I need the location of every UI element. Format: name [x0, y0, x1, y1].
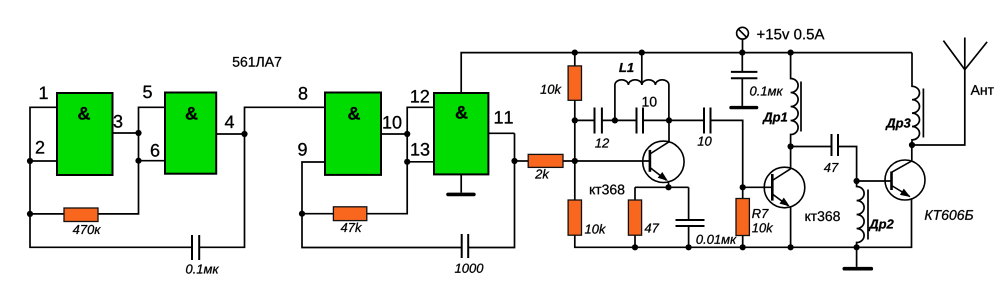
resistor 10k bottom	[568, 200, 581, 235]
wire pin2	[30, 160, 57, 162]
label 10k bottom	[585, 224, 606, 234]
wire 470k right lead and feedback column	[98, 107, 165, 214]
resistor 10k top	[568, 66, 581, 100]
wire pin13	[407, 161, 434, 163]
node Dr3 bottom	[909, 142, 915, 148]
pin 9	[298, 143, 306, 156]
power symbol +15v	[737, 27, 749, 39]
label 10a	[643, 97, 657, 107]
wire antenna feed	[912, 70, 965, 145]
inductor L1	[615, 80, 669, 121]
pin 13	[411, 143, 429, 156]
wire ground stub	[856, 247, 858, 267]
label Dr2	[868, 219, 893, 231]
resistor R7	[736, 199, 749, 236]
wire gate4 ground stub	[460, 175, 462, 193]
wire pin3	[113, 132, 139, 134]
wire cap12 left lead	[575, 119, 595, 121]
wire Q3 collector vertical	[911, 145, 913, 161]
core Dr1	[800, 82, 802, 132]
core Dr2	[867, 190, 869, 240]
gate U1.4	[434, 93, 488, 174]
gate U1.2 amp symbol	[186, 107, 198, 120]
capacitor 0.1mk right	[731, 72, 758, 78]
node 2k right	[572, 158, 578, 164]
pin 2	[36, 141, 44, 154]
label 0.1mk left	[186, 264, 219, 273]
wire collector node to cap10b	[669, 119, 704, 121]
node pin2	[27, 158, 33, 164]
label R7	[752, 209, 769, 218]
node pin10	[404, 131, 410, 137]
wire cap47 right to Q3 base node	[838, 147, 857, 182]
label 47	[644, 224, 659, 233]
label 12	[595, 138, 609, 147]
wire Q2 emitter vertical	[790, 207, 792, 247]
node caprow L1 left	[612, 117, 618, 123]
label +15v 0.5A	[757, 29, 824, 40]
wire cap 0.1mk right top stub	[741, 53, 743, 72]
wire cap47 left lead	[791, 146, 832, 148]
pin 8	[299, 87, 307, 100]
capacitor 12	[595, 108, 602, 134]
gate U1.1 amp symbol	[78, 107, 90, 120]
pin 6	[151, 144, 159, 157]
wire Q1 emitter node row	[635, 186, 689, 188]
capacitor 47	[832, 134, 839, 156]
node Dr2 top	[854, 178, 860, 184]
pin 4	[225, 116, 234, 128]
label Q2 kt368	[805, 211, 839, 221]
gate U1.3 amp symbol	[348, 107, 360, 120]
antenna prong center	[964, 38, 966, 70]
label cap 47	[824, 163, 839, 172]
node R7 top	[740, 184, 746, 190]
label IC 561LA7	[233, 57, 281, 67]
resistor 2k	[528, 154, 563, 167]
pin 12	[411, 90, 429, 103]
node rail power	[739, 50, 745, 56]
node rail Dr1	[788, 50, 794, 56]
wire pin8 from node A	[245, 107, 326, 134]
label KT606B	[925, 210, 973, 220]
wire 10k column middle	[574, 120, 576, 200]
label 0.1mk right	[750, 86, 783, 95]
wire cap 0.01 top stub	[688, 187, 690, 220]
wire cap12 to cap10a	[602, 119, 637, 121]
label Q1 kt368	[590, 185, 624, 195]
wire 2k right lead and Q1 base lead	[563, 160, 650, 162]
pin 5	[143, 86, 152, 99]
label antenna Ant	[971, 85, 994, 95]
node caprow L1 right	[666, 117, 672, 123]
label R7 value 10k	[752, 223, 773, 233]
wire node A down to cap rail	[199, 134, 244, 247]
node pin13	[404, 159, 410, 165]
transistor Q3 KT606B	[885, 160, 925, 200]
node Q1 emitter	[665, 184, 671, 190]
node rail L1 tap	[639, 50, 645, 56]
pin 11	[495, 111, 513, 123]
wire pin10	[381, 133, 407, 135]
node rail Q2 emitter	[788, 244, 794, 250]
capacitor C2 1000	[462, 234, 469, 258]
resistor 47k	[333, 207, 366, 221]
wire pin6	[139, 160, 166, 162]
wire 470k left lead	[30, 213, 64, 215]
label 1000	[455, 264, 483, 273]
inductor Dr1	[791, 53, 799, 147]
wire Q2 collector vertical	[790, 147, 792, 169]
node rail R7	[740, 244, 746, 250]
wire pin4	[216, 133, 244, 135]
wire R7 top stub	[742, 187, 744, 198]
wire cap10a to collector node	[643, 119, 669, 121]
node rail 0.01	[686, 244, 692, 250]
node pin3	[135, 130, 141, 136]
wire cap1000 right and column pin11	[468, 133, 514, 247]
node 470k left	[27, 211, 33, 217]
capacitor 10a	[637, 108, 644, 134]
wire 47res bottom stub	[634, 235, 636, 247]
gate U1.3	[325, 93, 381, 175]
capacitor 10b	[704, 108, 711, 134]
label Dr1	[762, 113, 787, 125]
label L1	[619, 63, 633, 72]
pin 1	[40, 87, 48, 99]
gate U1.2	[165, 93, 216, 174]
wire Q3 base lead	[857, 180, 892, 182]
node pin4	[241, 131, 247, 137]
label 10k top	[540, 84, 561, 94]
wire R7 bottom stub	[742, 236, 744, 248]
wire 10k bottom to cap row	[574, 100, 576, 120]
wire Q1 collector vertical	[668, 120, 670, 141]
capacitor C1 0.1mk	[192, 235, 199, 260]
antenna prong right	[965, 42, 987, 70]
gate U1.1	[57, 93, 113, 175]
wire pin1 and left rail	[30, 107, 192, 247]
label 10b	[698, 137, 712, 146]
node rail ground	[854, 244, 860, 250]
wire cap 0.01 bottom stub	[688, 226, 690, 247]
inductor Dr2	[857, 181, 865, 247]
pin 10	[383, 116, 401, 129]
label 0.01mk	[696, 235, 736, 244]
resistor 47	[628, 200, 641, 235]
inductor Dr3	[912, 53, 919, 145]
label 2k	[535, 169, 549, 178]
wire Q2 base lead	[743, 186, 773, 188]
node 47k left	[299, 211, 305, 217]
wire 47k right lead and column pins 10-13	[367, 134, 407, 214]
wire 47res top stub	[634, 187, 636, 200]
transistor Q1 kt368	[643, 141, 684, 187]
capacitor 0.01mk	[676, 220, 705, 226]
node pin6	[135, 158, 141, 164]
wire 10k top stub	[574, 53, 576, 66]
resistor 470k	[64, 208, 98, 222]
node caprow 10k	[572, 117, 578, 123]
core Dr3	[922, 89, 924, 138]
gate U1.4 amp symbol	[456, 106, 468, 119]
wire pin11	[489, 132, 515, 134]
wire 2k left lead	[515, 160, 529, 162]
wire ground rail right with Q3 emitter	[575, 198, 912, 247]
wire pin12	[407, 107, 434, 134]
ground under gate4	[446, 193, 476, 197]
label Dr3	[885, 118, 910, 130]
wire 47k left lead	[302, 213, 333, 215]
ground under cap 0.1mk right	[729, 106, 758, 109]
label 470k	[73, 225, 101, 234]
wire cap 0.1mk right bottom stub	[741, 78, 743, 106]
ground main	[843, 267, 874, 271]
wire power stub	[742, 39, 744, 53]
label 47k	[341, 223, 362, 232]
wire cap10b right and R7 column top	[711, 120, 743, 187]
transistor Q2 kt368	[764, 167, 805, 208]
pin 3	[114, 115, 123, 128]
wire top rail +15v	[461, 53, 912, 93]
node Dr1 bottom	[788, 143, 794, 149]
wire pin9 column and rail to cap 1000	[302, 162, 462, 248]
node rail 10k	[572, 50, 578, 56]
antenna prong left	[943, 41, 964, 70]
node rail 47	[632, 244, 638, 250]
wire L1 tap	[641, 53, 643, 84]
node 2k left	[511, 158, 517, 164]
